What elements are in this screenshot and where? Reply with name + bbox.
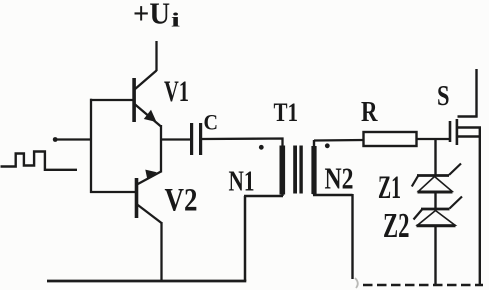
transistor V1 bbox=[132, 71, 161, 127]
svg-text:N2: N2 bbox=[325, 161, 354, 196]
wire: base bus vertical bbox=[90, 99, 92, 193]
wire: gate wire from R to MOSFET bbox=[417, 138, 450, 140]
wire: primary return riser bbox=[244, 196, 247, 281]
wire: V1 base lead bbox=[90, 99, 133, 101]
input square-wave symbol bbox=[1, 152, 78, 170]
wire: N2 return drop bbox=[351, 194, 353, 279]
MOSFET S bbox=[449, 117, 481, 146]
wire: V2 collector drop bbox=[160, 222, 162, 282]
wire: drain riser bbox=[475, 69, 477, 118]
wire: source drop to bottom return bbox=[479, 127, 481, 286]
node: input terminal dot bbox=[53, 137, 58, 142]
svg-text:V2: V2 bbox=[165, 183, 198, 219]
svg-text:R: R bbox=[361, 96, 378, 128]
wire: output node to capacitor bbox=[161, 138, 190, 140]
wire: output node vertical bbox=[160, 125, 162, 173]
wire: primary bottom lead bbox=[244, 195, 283, 198]
svg-text:N1: N1 bbox=[229, 166, 255, 198]
wire: V2 base lead bbox=[90, 191, 135, 193]
svg-text:V1: V1 bbox=[164, 75, 189, 108]
node: secondary polarity dot bbox=[325, 143, 330, 148]
svg-text:C: C bbox=[204, 110, 219, 135]
svg-text:Z2: Z2 bbox=[383, 206, 410, 245]
node: primary polarity dot bbox=[259, 145, 264, 150]
wire: secondary top lead to R bbox=[314, 139, 364, 142]
svg-text:i: i bbox=[171, 10, 181, 32]
wire: dashed bottom return bbox=[363, 284, 483, 287]
wire: capacitor to transformer primary bbox=[202, 139, 283, 149]
zener Z2 bbox=[414, 197, 463, 226]
resistor R bbox=[364, 132, 417, 146]
wire: V1 collector riser to +Ui bbox=[155, 41, 157, 71]
svg-text:T1: T1 bbox=[274, 98, 299, 127]
transformer T1 bbox=[280, 140, 317, 196]
wire: zener chain to bottom return bbox=[434, 226, 436, 286]
wire: Z1 to Z2 link bbox=[434, 192, 436, 210]
svg-text:+U: +U bbox=[133, 0, 170, 31]
svg-text:S: S bbox=[437, 80, 450, 112]
transistor V2 bbox=[135, 170, 162, 223]
svg-text:Z1: Z1 bbox=[378, 170, 401, 206]
zener Z1 bbox=[412, 164, 461, 193]
wire: zener branch drop bbox=[434, 140, 436, 176]
wire: input lead to base bus bbox=[55, 138, 92, 140]
wire: N2 bottom lead bbox=[313, 194, 353, 196]
capacitor C bbox=[190, 123, 202, 155]
watermark remnant hook bbox=[355, 278, 358, 288]
wire: bottom rail bbox=[47, 280, 246, 283]
